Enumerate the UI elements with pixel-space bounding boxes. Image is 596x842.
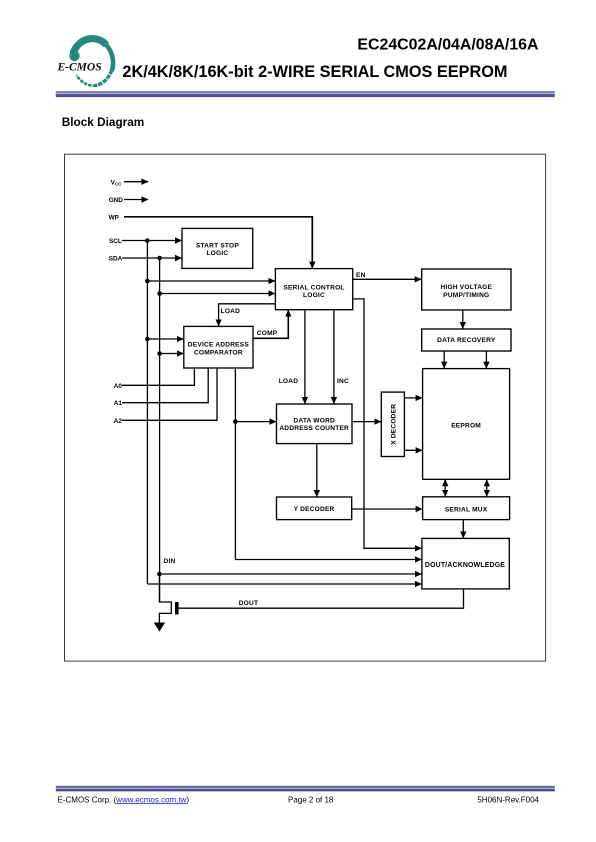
svg-text:E-CMOS Corp. (www.ecmos.com.tw: E-CMOS Corp. (www.ecmos.com.tw) [58, 795, 190, 804]
transistor Q1 gate path [159, 574, 171, 623]
svg-text:2K/4K/8K/16K-bit 2-WIRE SERIAL: 2K/4K/8K/16K-bit 2-WIRE SERIAL CMOS EEPR… [122, 63, 507, 81]
pin Vcc arrow [124, 181, 148, 183]
wire data recovery to eeprom left [443, 351, 445, 368]
wire DIN to dout acknowledge [159, 573, 421, 575]
svg-text:EN: EN [356, 272, 366, 279]
block EEPROM [423, 369, 510, 480]
svg-text:DATA WORD: DATA WORD [293, 417, 335, 424]
block X DECODER [381, 392, 404, 456]
svg-text:DATA RECOVERY: DATA RECOVERY [437, 337, 496, 344]
wire serial control to dout acknowledge [353, 299, 422, 548]
wire SCL rail vertical [146, 241, 148, 585]
svg-text:GND: GND [109, 197, 124, 204]
svg-text:DIN: DIN [164, 558, 176, 565]
svg-text:DEVICE ADDRESS: DEVICE ADDRESS [188, 341, 250, 348]
wire comparator down to dout acknowledge [235, 368, 421, 560]
block DOUT/ACKNOWLEDGE [422, 538, 509, 589]
svg-text:LOAD: LOAD [221, 308, 241, 315]
svg-text:VCC: VCC [111, 179, 123, 186]
wire SCL rail to serial control logic [147, 280, 275, 282]
block DATA RECOVERY [422, 329, 511, 351]
wire COMP comparator to serial control [253, 310, 288, 338]
node SDA serial control junction [157, 291, 162, 296]
svg-text:INC: INC [337, 378, 349, 385]
svg-text:Y DECODER: Y DECODER [294, 506, 335, 513]
wire INC serial control to data word address counter [333, 310, 335, 404]
wire SCL bottom to dout acknowledge [147, 583, 421, 585]
wire y decoder to serial mux [352, 508, 423, 510]
wire SCL rail to device address comparator [147, 338, 183, 340]
svg-text:COMPARATOR: COMPARATOR [194, 349, 243, 356]
footer double rule [56, 786, 555, 792]
node SDA comparator junction [157, 351, 162, 356]
wire node to data word address counter [235, 421, 276, 423]
wire SDA to start stop logic [122, 257, 182, 259]
wire counter to x decoder [352, 421, 381, 423]
wire WP to serial control logic [124, 217, 312, 268]
svg-text:PUMP/TIMING: PUMP/TIMING [443, 292, 489, 299]
wire LOAD serial control to comparator [219, 304, 276, 326]
wire A1 to comparator [122, 368, 208, 403]
wire high voltage pump to data recovery [462, 310, 464, 329]
wire eeprom serial mux bidirectional left [444, 480, 446, 497]
header double rule [56, 91, 555, 97]
wire x decoder to eeprom lower [404, 449, 422, 451]
svg-text:SERIAL MUX: SERIAL MUX [445, 507, 488, 514]
wire DOUT from transistor to dout acknowledge [179, 589, 464, 608]
svg-text:X DECODER: X DECODER [390, 404, 397, 445]
pin GND arrow [124, 199, 148, 201]
block DATA WORD ADDRESS COUNTER [277, 404, 353, 444]
E-CMOS logo brush circle [69, 39, 113, 86]
svg-text:ADDRESS COUNTER: ADDRESS COUNTER [279, 425, 349, 432]
svg-text:Block Diagram: Block Diagram [62, 115, 145, 129]
svg-text:WP: WP [109, 214, 120, 221]
svg-text:A2: A2 [114, 418, 123, 425]
svg-text:EC24C02A/04A/08A/16A: EC24C02A/04A/08A/16A [357, 36, 539, 53]
svg-text:A1: A1 [114, 400, 123, 407]
svg-text:START STOP: START STOP [196, 242, 240, 249]
node DIN junction [157, 572, 162, 577]
svg-text:E-CMOS: E-CMOS [57, 62, 102, 74]
wire SDA rail to serial control logic [160, 293, 275, 295]
svg-text:LOGIC: LOGIC [206, 250, 228, 257]
node SCL pin junction [145, 238, 150, 243]
svg-text:LOAD: LOAD [279, 378, 299, 385]
node SDA pin junction [157, 256, 162, 261]
svg-text:HIGH VOLTAGE: HIGH VOLTAGE [440, 284, 492, 291]
block SERIAL MUX [423, 497, 510, 520]
node SCL comparator junction [145, 337, 150, 342]
svg-text:SERIAL CONTROL: SERIAL CONTROL [283, 284, 344, 291]
wire A2 to comparator [122, 368, 217, 420]
svg-text:DOUT/ACKNOWLEDGE: DOUT/ACKNOWLEDGE [425, 562, 505, 569]
ground arrow [154, 623, 165, 632]
wire SDA rail vertical [159, 258, 161, 602]
wire A0 to comparator [122, 368, 194, 385]
wire counter to y decoder [316, 444, 318, 497]
svg-text:Page 2 of 18: Page 2 of 18 [288, 796, 334, 805]
block HIGH VOLTAGE PUMP/TIMING [422, 269, 511, 310]
wire LOAD serial control to data word address counter [304, 310, 306, 404]
block SERIAL CONTROL LOGIC [275, 269, 352, 310]
node counter junction [233, 419, 238, 424]
wire eeprom serial mux bidirectional right [486, 480, 488, 497]
svg-text:SCL: SCL [109, 238, 122, 245]
diagram outer frame [65, 154, 546, 661]
block DEVICE ADDRESS COMPARATOR [184, 326, 253, 368]
svg-text:SDA: SDA [109, 256, 123, 263]
wire data recovery to eeprom right [485, 351, 487, 368]
node SCL serial control junction [145, 279, 150, 284]
svg-text:LOGIC: LOGIC [303, 292, 325, 299]
svg-text:COMP: COMP [257, 330, 278, 337]
wire serial mux to dout acknowledge [462, 520, 464, 538]
svg-text:EEPROM: EEPROM [451, 422, 481, 429]
block START STOP LOGIC [182, 228, 253, 268]
wire SCL to start stop logic [122, 240, 182, 242]
transistor Q1 channel bar [175, 602, 179, 614]
svg-text:DOUT: DOUT [239, 600, 258, 607]
wire EN serial control to high voltage pump [353, 278, 422, 280]
svg-text:5H06N-Rev.F004: 5H06N-Rev.F004 [477, 796, 539, 805]
wire SDA rail to device address comparator [160, 353, 184, 355]
svg-text:A0: A0 [114, 383, 123, 390]
wire x decoder to eeprom upper [404, 397, 422, 399]
block Y DECODER [277, 497, 352, 520]
